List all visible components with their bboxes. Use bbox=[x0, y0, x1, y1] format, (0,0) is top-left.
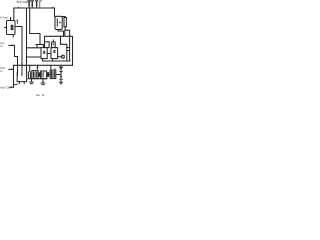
arrow junction mid bbox=[37, 65, 39, 69]
trimmer K1 bbox=[45, 42, 50, 48]
label AUD OUT bbox=[0, 86, 11, 90]
IF transformer box B bbox=[41, 71, 47, 79]
wire outer bottom rail bbox=[14, 64, 73, 66]
node dot box C bbox=[54, 68, 55, 69]
ground G2 bbox=[41, 79, 45, 85]
label A INPUT bbox=[0, 16, 8, 20]
can legs bbox=[14, 82, 24, 85]
wire T1 T2 link bbox=[47, 53, 51, 55]
shield can T3 bbox=[17, 72, 26, 81]
wire T1 lower left lead bbox=[27, 56, 42, 58]
pin P4 flag bbox=[40, 1, 42, 8]
transformer T2 bbox=[51, 48, 58, 59]
wire right link bbox=[65, 30, 73, 65]
wire T2 bottom stub bbox=[52, 59, 54, 61]
wire U1 output to bus bbox=[15, 27, 22, 76]
U2 internal mark bbox=[57, 19, 61, 26]
wire U2 emitter bbox=[58, 30, 64, 37]
wire junction drop bbox=[60, 36, 62, 44]
resistor R2 bbox=[31, 1, 34, 8]
label ANT IN bbox=[0, 41, 5, 48]
wire bus 2 from rail bbox=[30, 8, 40, 45]
wire T1 upper left lead bbox=[27, 47, 42, 49]
caption text bbox=[36, 93, 44, 97]
wire row bottom rail bbox=[28, 78, 47, 80]
wire top rail bbox=[14, 7, 55, 9]
wire R4 to bus B bbox=[65, 27, 69, 61]
capacitor C2 rungs bbox=[67, 48, 70, 51]
wire T2 to H bbox=[58, 56, 62, 58]
T2 internal mark bbox=[53, 50, 55, 53]
node label ANT INPUT bbox=[17, 0, 30, 4]
svg-text:6w: 6w bbox=[36, 93, 41, 97]
arrow aud out bbox=[10, 86, 14, 88]
T1 internal mark bbox=[43, 51, 45, 54]
node dot near U1 bbox=[17, 20, 19, 24]
svg-text:In: In bbox=[0, 69, 3, 73]
diode detector stack D1 bbox=[59, 65, 62, 82]
trimmer K2 bbox=[52, 40, 56, 48]
wire rail drop left bbox=[13, 8, 15, 20]
IF transformer box A bbox=[32, 71, 38, 79]
U1 internal mark bbox=[11, 25, 14, 30]
transformer T1 bbox=[41, 48, 47, 59]
junction dot on rail left bbox=[18, 7, 19, 8]
wire box C to detector bbox=[56, 74, 61, 76]
IC U1 bbox=[5, 18, 16, 37]
resistor R3 bbox=[35, 1, 38, 8]
ground G1 bbox=[30, 79, 34, 84]
svg-text:In: In bbox=[0, 44, 3, 48]
link with cap 2 bbox=[47, 73, 51, 77]
transistor U2 bbox=[55, 16, 62, 29]
ground G3 bbox=[60, 82, 63, 84]
resistor R1 bbox=[28, 1, 31, 8]
wire mid rail to T1 bbox=[45, 36, 64, 42]
svg-text:9t: 9t bbox=[42, 93, 45, 97]
label OSC IN bbox=[0, 66, 6, 73]
wire left bus down bbox=[13, 65, 15, 87]
small box H bbox=[62, 55, 64, 58]
wire drops to IF row bbox=[30, 65, 51, 71]
capacitor C3 bars bbox=[28, 71, 31, 78]
IF transformer box C bbox=[50, 70, 56, 78]
link with cap bbox=[38, 73, 41, 76]
wire ant in to can bbox=[15, 45, 18, 75]
arrow osc in bbox=[9, 68, 13, 70]
resistor R4 bbox=[63, 17, 67, 27]
wire rail drop right to U2 bbox=[54, 8, 56, 16]
svg-text:A-Inst: A-Inst bbox=[0, 16, 8, 20]
junction dot on rail bbox=[52, 7, 53, 8]
wire T1 bottom stub bbox=[42, 59, 44, 61]
capacitor header pi element bbox=[36, 45, 44, 48]
wire inner bottom rail bbox=[43, 60, 70, 62]
wire to capacitor C2 bbox=[61, 44, 67, 61]
arrow ant in bbox=[9, 44, 13, 46]
wire bus from rail bbox=[26, 8, 28, 72]
